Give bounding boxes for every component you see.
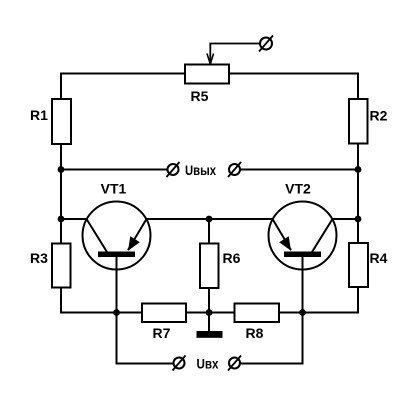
- wire R6 top lead: [208, 219, 210, 244]
- wire R7 to R8: [186, 312, 234, 314]
- R5 wiper arrowhead: [207, 54, 214, 65]
- resistor R4: [349, 243, 368, 287]
- wire Uvyh left: [61, 169, 168, 171]
- terminal Uvyh right: [228, 162, 241, 177]
- wire right bottom: [278, 287, 358, 313]
- terminal Uvh right: [228, 356, 241, 371]
- svg-text:R2: R2: [370, 108, 388, 124]
- wire Uvyh right: [240, 169, 358, 171]
- wire R6 bottom lead: [208, 288, 210, 313]
- svg-text:VT2: VT2: [285, 181, 311, 197]
- junction VT2 base bottom: [299, 309, 306, 316]
- wire right rail: [357, 144, 359, 244]
- wire top rail: [61, 74, 358, 100]
- wire R5 wiper: [210, 44, 260, 64]
- svg-text:R7: R7: [153, 325, 171, 341]
- svg-text:R6: R6: [223, 250, 241, 266]
- svg-text:R3: R3: [30, 250, 48, 266]
- junction ground node: [206, 309, 213, 316]
- resistor R1: [52, 99, 71, 144]
- terminal top: [259, 36, 273, 52]
- terminal Uvyh left: [167, 162, 180, 177]
- resistor R6: [200, 244, 219, 289]
- wire VT2 base: [240, 257, 303, 364]
- junction left collector: [58, 216, 65, 223]
- svg-text:R8: R8: [246, 325, 264, 341]
- transistor VT1: [83, 202, 151, 270]
- resistor R7: [142, 304, 186, 323]
- wire ground lead: [208, 313, 210, 332]
- svg-text:R1: R1: [30, 107, 48, 123]
- wire VT1 base: [117, 257, 174, 364]
- resistor R8: [235, 304, 280, 323]
- terminal Uvh left: [173, 356, 186, 371]
- junction right collector: [355, 216, 362, 223]
- svg-text:VT1: VT1: [101, 181, 127, 197]
- svg-text:R5: R5: [191, 88, 209, 104]
- wire left rail: [60, 144, 62, 244]
- resistor R2: [349, 99, 368, 144]
- ground: [197, 331, 223, 338]
- wire collector row: [61, 218, 358, 220]
- transistor VT2: [269, 202, 337, 270]
- junction VT1 base bottom: [113, 309, 120, 316]
- svg-text:Uвых: Uвых: [185, 162, 216, 178]
- junction left Uvyh: [58, 166, 65, 173]
- svg-text:R4: R4: [370, 250, 388, 266]
- svg-text:Uвх: Uвх: [197, 356, 219, 372]
- junction emitter center: [206, 216, 213, 223]
- potentiometer R5: [185, 65, 229, 84]
- wire left bottom: [61, 288, 142, 313]
- junction right Uvyh: [355, 166, 362, 173]
- resistor R3: [52, 244, 71, 288]
